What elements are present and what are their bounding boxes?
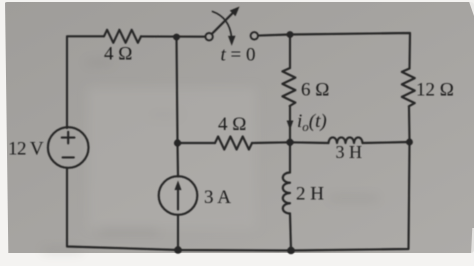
bottom junction dot left bbox=[174, 246, 182, 254]
wire node B to top-right corner, down to R3 bbox=[290, 33, 410, 69]
svg-text:io(t): io(t) bbox=[297, 111, 327, 134]
io(t) arrowhead down on wire bbox=[287, 121, 294, 131]
middle wire left to R2 bbox=[178, 142, 216, 144]
wire node A down to middle wire bbox=[177, 37, 178, 143]
switch pole circle left bbox=[205, 33, 212, 40]
svg-text:t = 0: t = 0 bbox=[221, 45, 256, 66]
switch blade bbox=[212, 12, 234, 34]
node C junction dot bbox=[286, 139, 293, 146]
node A junction dot bbox=[173, 34, 180, 41]
wire R6 to node C with io arrow bbox=[289, 106, 291, 142]
svg-text:4 Ω: 4 Ω bbox=[104, 44, 132, 65]
svg-text:3 A: 3 A bbox=[204, 187, 231, 208]
resistor R1 4ohm top bbox=[104, 30, 141, 43]
svg-text:12 V: 12 V bbox=[8, 139, 44, 160]
wire node B down to R6 6ohm bbox=[289, 35, 291, 69]
svg-text:2 H: 2 H bbox=[296, 184, 324, 205]
wire R1 to switch bbox=[141, 35, 205, 37]
current source IS 3A circle bbox=[159, 176, 198, 215]
switch blade arrowhead bbox=[230, 7, 240, 17]
resistor R2 4ohm middle bbox=[215, 137, 252, 150]
faint bleed-through rectangle bbox=[42, 60, 378, 253]
wire node D down right side to bottom bbox=[291, 142, 410, 251]
node D junction dot bbox=[406, 139, 413, 146]
resistor R3 12ohm right bbox=[402, 69, 415, 107]
svg-text:12 Ω: 12 Ω bbox=[416, 80, 454, 101]
bottom wire left part bbox=[67, 168, 291, 251]
bottom junction dot right bbox=[287, 247, 295, 255]
voltage source VS 12V circle bbox=[48, 127, 89, 168]
plus sign in source bbox=[62, 137, 75, 139]
wire R2 to node C bbox=[252, 141, 290, 144]
svg-text:6 Ω: 6 Ω bbox=[301, 80, 329, 101]
wire switch to node B bbox=[258, 35, 290, 36]
switch throw circle right bbox=[251, 32, 258, 39]
inductor L2 2H bbox=[283, 173, 290, 214]
current source IS arrow up bbox=[177, 188, 179, 210]
wire node C to inductor L1 bbox=[290, 141, 329, 144]
wire middle node to 3A source bbox=[176, 143, 179, 177]
wire R3 to node D bbox=[408, 106, 411, 142]
wire top-left corner to R1 bbox=[67, 36, 104, 128]
wire 3A source to bottom bbox=[177, 215, 179, 250]
wire L1 to node D bbox=[363, 142, 410, 143]
arc arrowhead down bbox=[228, 36, 236, 46]
middle-left junction dot bbox=[174, 139, 181, 146]
svg-text:4 Ω: 4 Ω bbox=[218, 114, 246, 135]
svg-text:3 H: 3 H bbox=[336, 142, 363, 162]
minus sign in source bbox=[63, 156, 74, 158]
switch closing arc t=0 bbox=[213, 12, 232, 38]
resistor R6 6ohm bbox=[282, 68, 295, 106]
wire node C down to inductor L2 bbox=[289, 142, 291, 172]
inductor L1 3H bbox=[329, 137, 363, 143]
node B junction dot bbox=[287, 31, 294, 38]
wire L2 to bottom bbox=[290, 214, 291, 251]
